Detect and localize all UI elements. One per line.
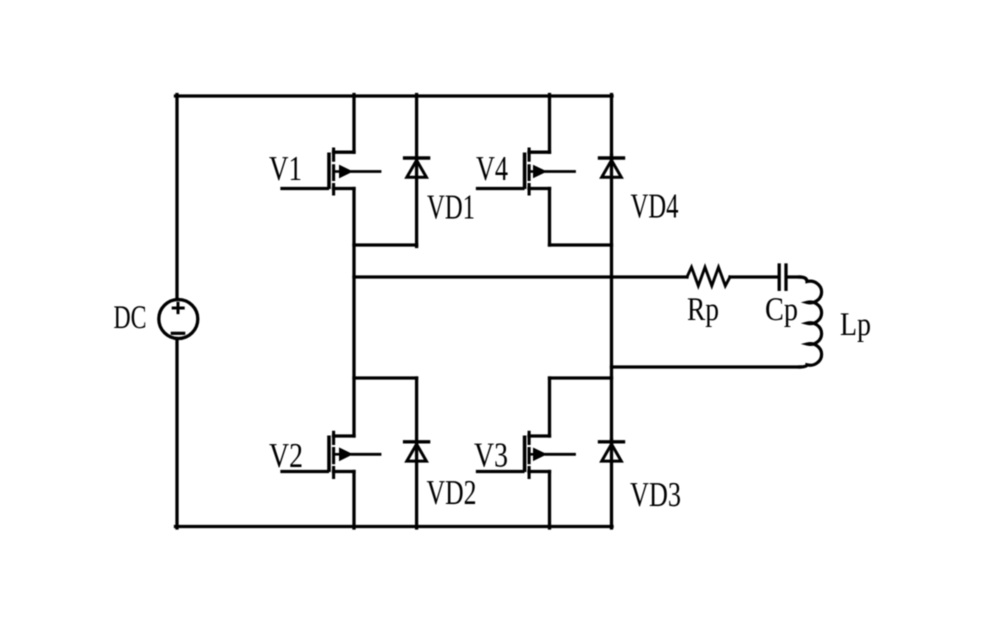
wire: Rp to Cp: [730, 275, 778, 278]
wire: bottom rail: [176, 525, 613, 528]
wire: V3 drain down: [548, 378, 551, 436]
label DC: [114, 306, 145, 328]
label VD2: [427, 481, 475, 505]
wire: V4 drain up: [548, 95, 551, 153]
wire: V1 drain up: [352, 95, 355, 153]
label Cp: [766, 298, 797, 327]
wire: V4 source down: [548, 189, 551, 246]
transistor V4: [478, 148, 575, 196]
label VD1: [427, 195, 473, 219]
wire: V4 block bottom horizontal: [550, 243, 612, 246]
wire: V2 source down: [352, 472, 355, 529]
capacitor Cp: [779, 265, 786, 289]
wire: V3 block top horizontal: [550, 376, 612, 379]
label V2: [269, 444, 301, 468]
transistor V2: [282, 431, 380, 479]
wire: V1 source down to V2 drain: [352, 189, 355, 437]
diode VD3: [600, 440, 624, 528]
wire: load return to node B: [612, 365, 801, 368]
label Lp: [841, 313, 870, 342]
wire: V2 block top horizontal: [354, 376, 417, 379]
diode VD4: [600, 95, 624, 178]
wire: Cp to Lp: [788, 275, 801, 278]
wire: node A rail to load: [354, 275, 687, 278]
label V1: [269, 157, 300, 181]
transistor V3: [478, 431, 575, 479]
diode VD1: [405, 95, 429, 247]
diode VD2: [405, 378, 429, 528]
wire: node B vertical (VD4 to VD3): [610, 155, 613, 443]
label V3: [474, 443, 507, 467]
label VD4: [631, 194, 678, 218]
transistor V1: [282, 148, 380, 196]
wire: left vertical (DC bottom): [175, 339, 178, 529]
resistor Rp: [687, 267, 730, 286]
DC source: [159, 300, 198, 339]
inductor Lp: [800, 277, 822, 367]
label Rp: [688, 298, 718, 327]
wire: V1 block bottom horizontal: [354, 243, 417, 246]
wire: V3 source down: [548, 472, 551, 529]
label V4: [476, 157, 507, 181]
wire: left vertical (DC top): [175, 95, 178, 299]
label VD3: [630, 483, 680, 507]
wire: top rail: [176, 94, 613, 97]
